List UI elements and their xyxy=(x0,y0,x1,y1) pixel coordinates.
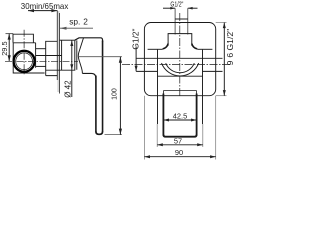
dimension Ø42 line and arrows xyxy=(70,40,73,97)
inlet circle outer ring xyxy=(14,51,35,72)
svg-text:sp.: sp. xyxy=(69,17,80,27)
centerline horizontal main axis xyxy=(5,60,78,62)
cartridge arc outer xyxy=(162,63,199,76)
in-wall box right side xyxy=(202,50,204,124)
svg-text:96: 96 xyxy=(225,50,235,66)
wire extension line 29.5 top xyxy=(6,33,14,35)
cartridge housing block xyxy=(168,34,192,46)
cartridge neck lines xyxy=(75,40,77,70)
handle front kinked edge xyxy=(78,38,83,74)
rosette bottom line xyxy=(46,69,76,71)
centerline horizontal front view xyxy=(122,63,230,65)
housing fillet left xyxy=(163,44,169,49)
pipe lower line xyxy=(36,65,46,67)
in-wall box left side xyxy=(157,50,159,124)
svg-text:30min/65max: 30min/65max xyxy=(21,1,69,11)
svg-text:29.5: 29.5 xyxy=(0,41,9,55)
wall line rear xyxy=(56,11,58,80)
dimension 90 line xyxy=(144,155,215,158)
centerline vertical of inlet xyxy=(23,30,25,76)
wire extension line 100 bottom xyxy=(105,134,122,136)
handle top profile xyxy=(75,38,103,42)
inner pipe line xyxy=(36,55,62,57)
dimension G1/2 left leader xyxy=(135,47,138,72)
top port end line xyxy=(175,18,188,20)
svg-text:100: 100 xyxy=(111,88,118,100)
wire extension lines 90 xyxy=(144,96,215,160)
union collar xyxy=(46,41,58,75)
dimension 96 line xyxy=(223,23,226,96)
opening inner wall right xyxy=(196,94,198,136)
wire extension line 100 top xyxy=(79,56,122,58)
port bottom line right xyxy=(203,70,223,72)
svg-text:Ø 42: Ø 42 xyxy=(63,80,72,98)
body top box side view xyxy=(13,34,33,43)
shoulder line right xyxy=(197,48,212,50)
svg-text:G1/2": G1/2" xyxy=(225,29,235,51)
svg-text:42.5: 42.5 xyxy=(173,112,187,121)
dimension 57 line xyxy=(157,143,203,146)
opening wall stubs above plate bottom xyxy=(163,91,196,94)
wire extension lines 57 xyxy=(157,124,203,147)
rosette plate edge-on xyxy=(61,40,63,70)
handle hub bottom xyxy=(82,73,96,78)
lever blade front edge xyxy=(95,76,97,132)
svg-text:2: 2 xyxy=(83,17,88,27)
lever blade bottom xyxy=(96,131,103,134)
housing fillet right xyxy=(192,44,198,49)
band bottom line xyxy=(158,75,203,77)
shoulder line left xyxy=(148,48,163,50)
opening bottom line xyxy=(163,135,196,137)
svg-text:57: 57 xyxy=(174,137,182,146)
wall fill xyxy=(57,11,59,92)
dimension 100 line and arrows xyxy=(119,57,122,135)
pipe upper line xyxy=(36,48,46,50)
rosette top line xyxy=(60,39,75,41)
port bottom line left xyxy=(136,70,157,72)
dimension G1/2 top line with arrows xyxy=(163,7,198,10)
dimension 42.5 line xyxy=(163,119,196,122)
wire dimension line 29.5 xyxy=(8,34,11,62)
top port extension lines xyxy=(175,8,188,34)
wire leader sp.2 xyxy=(60,27,93,30)
wire extension lines 96 xyxy=(216,23,227,96)
opening top line xyxy=(163,90,196,92)
inlet circle inner xyxy=(16,53,33,70)
escutcheon plate front view xyxy=(144,23,215,96)
opening inner wall left xyxy=(162,94,164,136)
svg-text:90: 90 xyxy=(175,148,183,157)
wall line front xyxy=(59,13,61,94)
band top line xyxy=(136,57,222,59)
body block side view xyxy=(13,43,44,73)
svg-text:G1/2": G1/2" xyxy=(131,28,141,49)
cartridge arc inner xyxy=(166,63,195,73)
wire dimension line 30min/65max xyxy=(28,9,57,12)
centerline vertical front view xyxy=(179,13,181,96)
handle right edge and blade back xyxy=(102,41,104,132)
svg-text:G1/2": G1/2" xyxy=(170,0,183,8)
